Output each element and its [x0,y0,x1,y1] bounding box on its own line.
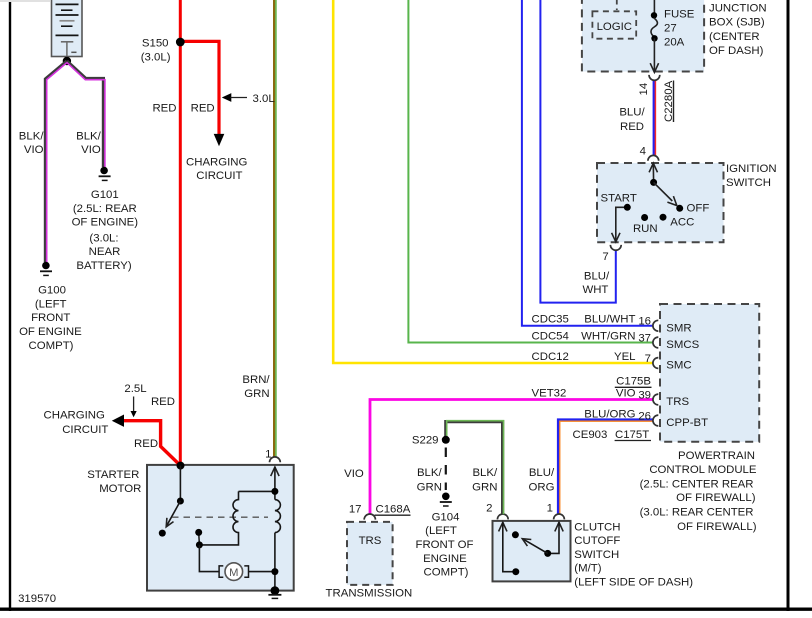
svg-text:S229: S229 [412,435,439,447]
svg-text:SWITCH: SWITCH [574,549,619,561]
svg-text:SMR: SMR [666,322,691,334]
svg-text:(LEFT: (LEFT [425,525,457,537]
svg-text:7: 7 [602,251,608,263]
svg-text:CLUTCH: CLUTCH [574,521,620,533]
svg-text:ORG: ORG [529,481,555,493]
svg-text:16: 16 [638,316,651,328]
svg-text:RED: RED [152,102,176,114]
svg-text:ENGINE: ENGINE [423,553,467,565]
svg-text:VIO: VIO [344,468,364,480]
svg-text:OF ENGINE: OF ENGINE [19,326,82,338]
svg-text:BATTERY): BATTERY) [76,260,131,272]
svg-text:POWERTRAIN: POWERTRAIN [678,450,755,462]
svg-text:M: M [229,567,238,579]
svg-text:MOTOR: MOTOR [99,483,141,495]
svg-text:4: 4 [640,146,646,158]
svg-text:3.0L: 3.0L [253,93,275,105]
svg-text:(3.0L:: (3.0L: [89,232,118,244]
svg-text:CPP-BT: CPP-BT [666,417,708,429]
svg-text:C175T: C175T [615,429,649,441]
svg-text:TRS: TRS [359,535,382,547]
svg-text:(3.0L): (3.0L) [141,51,171,63]
svg-text:TRANSMISSION: TRANSMISSION [326,587,413,599]
svg-text:VIO: VIO [24,144,44,156]
svg-text:RED: RED [620,121,644,133]
svg-text:CE903: CE903 [573,429,608,441]
svg-text:OF DASH): OF DASH) [709,45,764,57]
svg-text:IGNITION: IGNITION [726,163,777,175]
svg-text:OF FIREWALL): OF FIREWALL) [677,521,757,533]
svg-text:RUN: RUN [633,223,658,235]
svg-text:RED: RED [191,102,215,114]
svg-text:BLK/: BLK/ [19,130,45,142]
svg-text:COMPT): COMPT) [29,340,74,352]
svg-text:14: 14 [638,83,650,96]
svg-text:1: 1 [265,449,271,461]
svg-text:SMC: SMC [666,360,691,372]
svg-text:S150: S150 [142,37,169,49]
svg-text:ACC: ACC [670,217,694,229]
svg-text:G104: G104 [432,511,460,523]
svg-text:BOX (SJB): BOX (SJB) [709,17,765,29]
svg-text:(M/T): (M/T) [574,563,601,575]
svg-text:BLU/: BLU/ [619,107,645,119]
svg-text:VIO: VIO [616,387,636,399]
svg-text:C168A: C168A [376,504,411,516]
svg-text:WHT/GRN: WHT/GRN [581,330,635,342]
svg-text:OF ENGINE): OF ENGINE) [72,217,139,229]
svg-text:LOGIC: LOGIC [597,21,632,33]
svg-text:TRS: TRS [666,396,689,408]
svg-text:7: 7 [645,353,651,365]
svg-text:CHARGING: CHARGING [44,409,106,421]
svg-text:BLK/: BLK/ [76,130,102,142]
svg-text:WHT: WHT [582,284,608,296]
svg-text:CUTOFF: CUTOFF [574,535,620,547]
svg-text:START: START [601,192,637,204]
svg-text:C175B: C175B [616,376,651,388]
svg-text:OFF: OFF [687,202,710,214]
svg-text:G100: G100 [38,285,66,297]
svg-text:(LEFT SIDE OF DASH): (LEFT SIDE OF DASH) [574,577,693,589]
svg-text:(LEFT: (LEFT [35,298,67,310]
svg-text:BLU/ORG: BLU/ORG [584,408,635,420]
svg-text:RED: RED [151,396,175,408]
svg-text:(2.5L: CENTER REAR: (2.5L: CENTER REAR [640,478,754,490]
svg-text:FRONT OF: FRONT OF [415,539,473,551]
svg-text:FRONT: FRONT [31,312,70,324]
svg-text:CDC35: CDC35 [532,314,569,326]
svg-text:SMCS: SMCS [666,339,699,351]
svg-text:319570: 319570 [18,593,56,605]
svg-text:BLK/: BLK/ [417,467,443,479]
svg-text:CIRCUIT: CIRCUIT [62,424,108,436]
svg-text:NEAR: NEAR [89,246,121,258]
svg-text:BRN/: BRN/ [242,374,270,386]
svg-text:FUSE: FUSE [664,9,695,21]
svg-text:BLU/WHT: BLU/WHT [584,314,635,326]
svg-text:G101: G101 [91,189,119,201]
svg-text:CDC12: CDC12 [532,351,569,363]
svg-text:(2.5L: REAR: (2.5L: REAR [73,203,137,215]
svg-text:GRN: GRN [472,481,497,493]
svg-text:CDC54: CDC54 [532,330,569,342]
svg-text:39: 39 [638,390,651,402]
svg-text:CONTROL MODULE: CONTROL MODULE [649,464,757,476]
svg-text:GRN: GRN [417,481,442,493]
svg-text:RED: RED [134,438,158,450]
svg-text:20A: 20A [664,37,685,49]
svg-text:2.5L: 2.5L [124,383,146,395]
svg-text:26: 26 [638,411,651,423]
svg-text:JUNCTION: JUNCTION [709,3,767,15]
svg-text:VET32: VET32 [532,387,567,399]
svg-text:2: 2 [486,502,492,514]
svg-text:COMPT): COMPT) [424,567,469,579]
svg-text:SWITCH: SWITCH [726,177,771,189]
svg-text:CHARGING: CHARGING [186,156,248,168]
svg-text:STARTER: STARTER [87,469,139,481]
svg-text:(CENTER: (CENTER [709,31,760,43]
svg-text:37: 37 [638,333,651,345]
svg-text:VIO: VIO [81,144,101,156]
svg-text:(3.0L: REAR CENTER: (3.0L: REAR CENTER [640,507,754,519]
svg-text:GRN: GRN [244,388,269,400]
svg-text:1: 1 [547,502,553,514]
svg-text:BLU/: BLU/ [584,270,610,282]
svg-text:CIRCUIT: CIRCUIT [196,170,242,182]
svg-text:BLK/: BLK/ [472,467,498,479]
svg-text:27: 27 [664,23,677,35]
svg-text:OF FIREWALL): OF FIREWALL) [676,492,756,504]
svg-text:17: 17 [349,504,362,516]
svg-text:BLU/: BLU/ [529,467,555,479]
svg-text:YEL: YEL [614,351,636,363]
